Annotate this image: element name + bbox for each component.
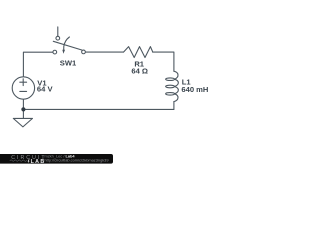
switch SW1 blade xyxy=(53,41,82,50)
svg-text:SW1: SW1 xyxy=(60,58,77,67)
V1 minus sign xyxy=(20,90,27,92)
svg-text:LAB: LAB xyxy=(31,159,46,165)
wire junction to ground xyxy=(22,109,24,118)
svg-text:64 Ω: 64 Ω xyxy=(131,67,148,76)
wire left rail: V1 top to top-left corner to switch left terminal xyxy=(23,52,53,77)
svg-text:http://circuitlab.com/c/2kbmaz: http://circuitlab.com/c/2kbmaz3ngk39 xyxy=(45,157,109,162)
switch arrow head xyxy=(62,50,65,54)
switch SW1 stub (top throw pin) xyxy=(57,27,59,36)
wire top rail: switch right terminal to resistor xyxy=(86,51,124,53)
voltage source V1 circle xyxy=(12,77,34,99)
switch SW1 top terminal xyxy=(56,36,60,40)
junction node dot xyxy=(21,107,25,111)
wire inductor bottom to bottom-right corner xyxy=(173,102,175,110)
wire bottom rail xyxy=(23,108,174,110)
switch SW1 left terminal xyxy=(53,50,57,54)
wire resistor to top-right corner down to inductor top xyxy=(153,52,174,71)
switch SW1 right terminal xyxy=(82,50,86,54)
resistor R1 zigzag xyxy=(124,47,153,58)
inductor L1 coil xyxy=(166,71,179,101)
switch SW1 actuation arrow xyxy=(64,37,70,50)
ground symbol xyxy=(13,118,32,127)
watermark bar xyxy=(0,154,113,164)
watermark logo lightning bolt xyxy=(28,159,30,163)
V1 plus sign xyxy=(20,79,27,86)
wire V1 bottom to junction xyxy=(22,99,24,109)
watermark logo resistor squiggle xyxy=(10,160,27,162)
svg-text:64 V: 64 V xyxy=(37,85,54,94)
svg-text:640 mH: 640 mH xyxy=(181,85,208,94)
